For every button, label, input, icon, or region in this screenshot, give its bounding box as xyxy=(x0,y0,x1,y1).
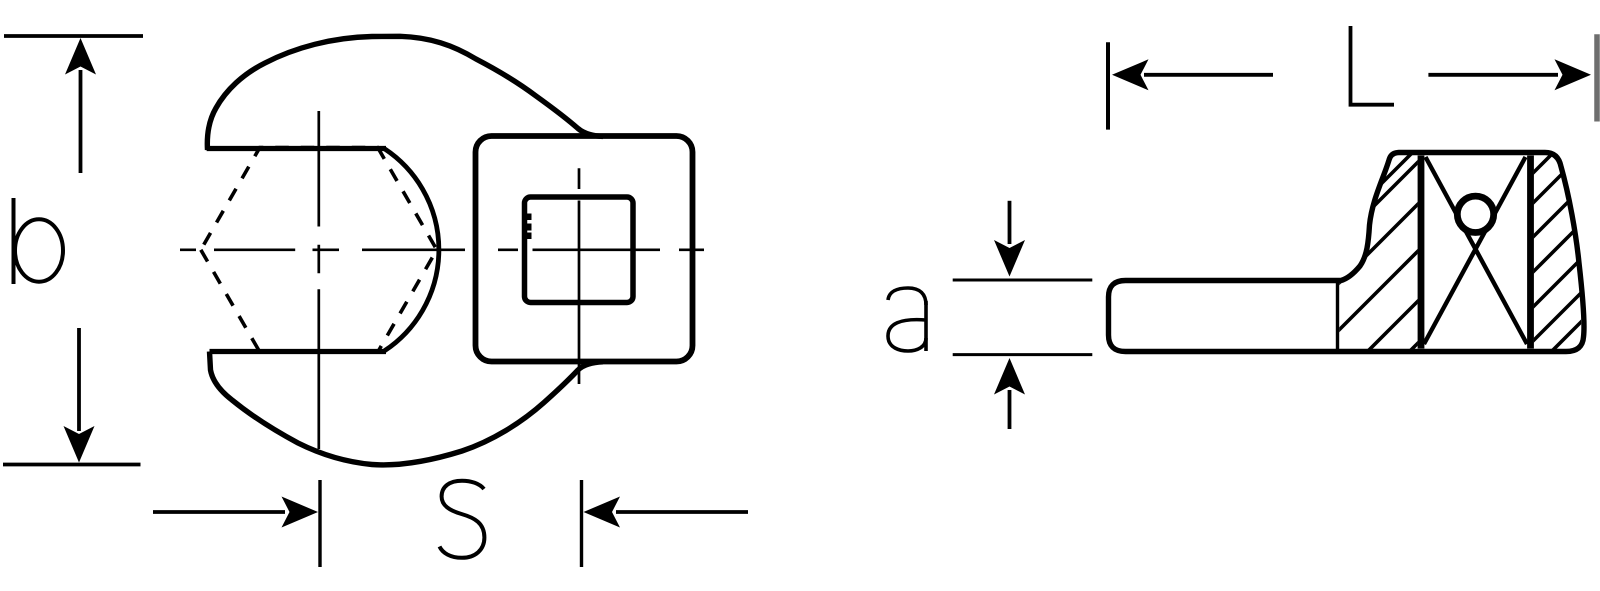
front view: top jaw line xyxy=(207,146,386,151)
dimension a: down arrow xyxy=(994,240,1025,277)
label a xyxy=(888,288,926,351)
side view: pin hole circle xyxy=(1457,196,1493,232)
dimension L: right extension tick (clipped at image edge) xyxy=(1594,34,1600,121)
front view: hexagon nut (dashed hidden line) xyxy=(201,148,437,352)
dimension b: bottom extension bar xyxy=(3,463,141,467)
dimension L: left arrow xyxy=(1112,59,1149,90)
dimension a: up arrow xyxy=(994,358,1025,395)
side view: square hole diagonal 2 xyxy=(1424,157,1526,344)
label b xyxy=(14,198,64,284)
dimension L: right arrow xyxy=(1428,73,1558,77)
side view: square hole diagonal 1 xyxy=(1426,157,1528,344)
dimension S: left arrow xyxy=(153,510,285,514)
side view: section boundary line xyxy=(1336,283,1339,349)
front view: bottom outer arc of body xyxy=(210,352,604,465)
dimension S: right extension tick xyxy=(580,480,583,567)
front view: jaw seat arc xyxy=(385,149,439,351)
dimension S: left extension tick xyxy=(318,480,321,567)
dimension a: top extension line xyxy=(953,279,1093,282)
dimension b: top extension bar xyxy=(4,34,143,38)
front view: drive hole edge marks xyxy=(525,214,532,240)
dimension b: up arrow xyxy=(65,38,96,75)
front view: drive boss rounded square xyxy=(476,136,693,362)
front view: hexagon vertical centerline xyxy=(317,111,320,449)
side view: body outline (handle + head) xyxy=(1109,153,1584,352)
label S xyxy=(440,481,485,558)
side view: socket opening right edge xyxy=(1527,156,1534,349)
dimension S: right arrow xyxy=(584,497,621,528)
front view: square drive hole xyxy=(525,197,634,303)
side view: socket opening left edge xyxy=(1418,156,1425,349)
front view: top outer arc of body xyxy=(207,36,603,150)
dimension L: left extension tick xyxy=(1106,42,1110,129)
label L xyxy=(1351,26,1395,105)
dimension a: bottom extension line xyxy=(953,353,1093,356)
dimension b: down arrow xyxy=(64,426,95,463)
front view: bottom jaw line xyxy=(210,349,387,354)
front view: horizontal centerline xyxy=(180,248,704,251)
front view: drive square vertical centerline xyxy=(578,168,581,384)
